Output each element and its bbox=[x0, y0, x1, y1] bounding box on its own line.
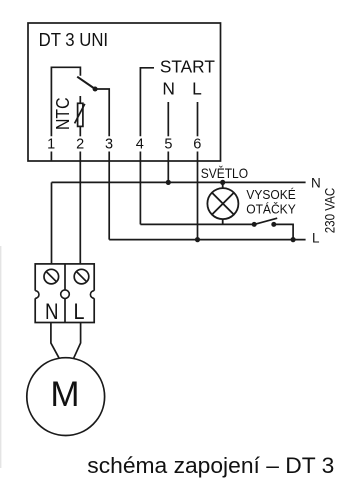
wire switch S2 to net L bbox=[274, 224, 293, 239]
svg-text:VYSOKÉ: VYSOKÉ bbox=[246, 187, 296, 202]
wire pin2 down to block L bbox=[79, 161, 81, 264]
wire NTC down bbox=[79, 126, 81, 136]
wire stub pin4 bbox=[139, 152, 141, 162]
net L horizontal bbox=[109, 239, 305, 241]
svg-text:5: 5 bbox=[164, 137, 172, 153]
wire pin3 down to net L bbox=[108, 161, 110, 240]
svg-text:6: 6 bbox=[193, 137, 201, 153]
terminal block X1 divider bbox=[64, 264, 66, 323]
switch S2 lever bbox=[254, 218, 277, 224]
wire net N down to block N bbox=[51, 182, 53, 264]
lamp E1 bottom lead bbox=[222, 219, 224, 224]
svg-text:START: START bbox=[160, 57, 215, 77]
lamp E1 circle bbox=[207, 188, 238, 219]
svg-text:L: L bbox=[312, 231, 320, 246]
svg-text:DT 3 UNI: DT 3 UNI bbox=[39, 30, 109, 50]
svg-text:schéma zapojení – DT 3: schéma zapojení – DT 3 bbox=[87, 453, 334, 478]
svg-text:NTC: NTC bbox=[53, 98, 73, 131]
wire pin5 down to net N bbox=[167, 161, 169, 182]
terminal block right notch bbox=[90, 291, 96, 299]
svg-text:L: L bbox=[74, 299, 85, 324]
enclosure U1 DT 3 UNI bbox=[28, 23, 221, 161]
terminal block screw L bbox=[74, 269, 89, 284]
wire stub pin6 bbox=[197, 152, 199, 162]
wire block L to motor bbox=[74, 323, 81, 359]
wire stub pin3 bbox=[108, 152, 110, 162]
wire terminal1 up bbox=[51, 67, 80, 136]
wire pin6 down to net L bbox=[197, 161, 199, 240]
wire terminal2 to NTC bbox=[79, 96, 81, 103]
terminal block screw L slot bbox=[76, 272, 86, 282]
label VYSOKE OTACKY bbox=[246, 187, 296, 216]
lamp E1 cross bbox=[212, 193, 234, 215]
lamp E1 top lead bbox=[222, 182, 224, 188]
terminal block screw N slot bbox=[46, 272, 56, 282]
wire lamp line left bbox=[140, 223, 254, 225]
svg-text:N: N bbox=[45, 299, 59, 324]
thermistor NTC strike bbox=[75, 104, 85, 124]
switch S2 contact right bbox=[271, 222, 276, 227]
svg-text:M: M bbox=[50, 375, 79, 414]
junction lamp net N bbox=[220, 180, 225, 185]
terminal block X1 body bbox=[35, 264, 94, 323]
svg-text:2: 2 bbox=[76, 137, 84, 153]
terminal block screw N bbox=[44, 269, 59, 284]
terminal block left notch bbox=[33, 291, 39, 299]
svg-text:OTÁČKY: OTÁČKY bbox=[246, 202, 296, 217]
wire block N to motor bbox=[51, 323, 59, 359]
net N horizontal bbox=[52, 181, 306, 183]
wire stub pin5 bbox=[167, 152, 169, 162]
switch S2 contact left bbox=[252, 222, 257, 227]
svg-text:N: N bbox=[311, 175, 321, 190]
junction switch contact bbox=[93, 87, 98, 92]
svg-text:230 VAC: 230 VAC bbox=[322, 188, 337, 234]
switch S1 lever bbox=[77, 77, 95, 89]
motor M1 circle bbox=[27, 358, 105, 436]
svg-text:3: 3 bbox=[105, 137, 113, 153]
svg-text:N: N bbox=[162, 78, 175, 98]
svg-text:SVĚTLO: SVĚTLO bbox=[201, 165, 248, 181]
wire stub pin2 bbox=[79, 152, 81, 162]
wire stub pin1 bbox=[50, 152, 52, 162]
svg-text:1: 1 bbox=[47, 137, 55, 153]
svg-text:4: 4 bbox=[136, 137, 144, 153]
junction pin6 net L bbox=[195, 237, 200, 242]
thermistor NTC body bbox=[78, 103, 83, 126]
junction pin5 net N bbox=[166, 180, 171, 185]
terminal block middle hole bbox=[61, 290, 70, 299]
wire terminal4 START bbox=[140, 68, 154, 137]
wire terminal5 up bbox=[167, 102, 169, 136]
wire terminal6 up bbox=[197, 102, 199, 136]
wire switch to terminal3 bbox=[95, 89, 109, 136]
junction S2 net L bbox=[291, 237, 296, 242]
svg-text:L: L bbox=[192, 78, 202, 98]
wire pin4 down to lamp line bbox=[139, 161, 141, 224]
